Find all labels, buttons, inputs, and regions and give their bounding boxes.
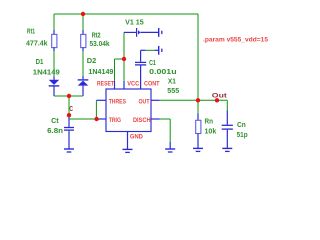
label Rt2	[92, 33, 101, 40]
op-amp U1: 555 timer X1 box	[106, 89, 151, 132]
label Rt1 value 477.4k	[26, 41, 48, 48]
svg-text:1N4149: 1N4149	[33, 70, 60, 77]
wire Out segment	[198, 99, 227, 101]
pin label OUT	[139, 98, 150, 105]
wire Rt2 to D2	[82, 48, 84, 80]
capacitor Ct bottom lead	[68, 131, 70, 149]
node junction dot OUT / rail / Rn	[196, 98, 200, 102]
svg-text:53.04k: 53.04k	[90, 41, 110, 48]
wire top rail Out net	[54, 13, 198, 15]
net label Out	[212, 93, 228, 100]
node junction dot TRIG/THRES tie	[94, 117, 98, 121]
capacitor Cn	[222, 125, 233, 129]
label Rt1	[27, 29, 35, 36]
svg-text:TRIG: TRIG	[109, 117, 121, 124]
label C1 value 0.001u	[149, 69, 177, 76]
diode D2 (cathode top, pointing up)	[78, 80, 89, 96]
svg-text:.param v555_vdd=15: .param v555_vdd=15	[203, 36, 268, 43]
svg-text:477.4k: 477.4k	[26, 41, 48, 48]
pin stub OUT	[151, 99, 160, 101]
pin stub GND	[127, 132, 129, 150]
node Out terminal dot	[215, 98, 219, 102]
svg-text:6.8n: 6.8n	[47, 128, 63, 135]
wire diode bottom rail	[54, 95, 83, 97]
svg-text:Cn: Cn	[237, 122, 246, 129]
resistor Rt1	[52, 34, 57, 47]
svg-text:C: C	[69, 106, 73, 113]
pin label GND	[130, 134, 143, 141]
svg-text:CONT: CONT	[144, 80, 160, 87]
pin label CONT	[144, 80, 160, 87]
svg-text:Rn: Rn	[205, 119, 214, 126]
wire Rt1 top lead	[53, 14, 55, 34]
label D2 value 1N4149	[88, 69, 113, 76]
label Rn value 10k	[205, 129, 217, 136]
voltage source V1	[124, 28, 158, 37]
label D1 value 1N4149	[33, 70, 60, 77]
pin stub CONT / C1 bottom lead	[140, 66, 142, 90]
svg-text:X1: X1	[168, 78, 176, 85]
svg-text:51p: 51p	[237, 132, 248, 139]
svg-text:D2: D2	[87, 58, 97, 65]
net label C	[69, 106, 73, 113]
pin label RESET	[97, 80, 114, 87]
label Cn value 51p	[237, 132, 248, 139]
pin label THRES	[109, 98, 127, 105]
pin stub VCC	[123, 81, 125, 89]
ground below GND pin	[123, 149, 133, 152]
node junction dot RESET/VCC tie	[122, 57, 126, 61]
ground right of C1	[159, 46, 162, 55]
wire to RESET	[115, 59, 125, 81]
pin stub RESET	[114, 81, 116, 89]
label Rn	[205, 119, 214, 126]
svg-text:V1 15: V1 15	[125, 19, 144, 26]
pin stub DISCH	[151, 118, 160, 120]
label Cn	[237, 122, 246, 129]
capacitor C1	[135, 62, 146, 65]
label Rt2 value 53.04k	[90, 41, 110, 48]
svg-text:Out: Out	[212, 93, 228, 100]
svg-text:1N4149: 1N4149	[88, 69, 113, 76]
capacitor C1 top lead	[141, 50, 146, 62]
wire THRES feedback down	[95, 100, 97, 119]
svg-text:D1: D1	[36, 59, 44, 66]
node junction dot top rail / Rt2	[81, 12, 85, 16]
svg-text:555: 555	[167, 88, 179, 95]
capacitor Ct top lead	[68, 115, 70, 127]
capacitor Ct	[64, 128, 74, 131]
label 555	[167, 88, 179, 95]
svg-text:THRES: THRES	[109, 98, 127, 105]
diode D1 (anode top, pointing down)	[49, 80, 60, 96]
resistor Rn	[196, 120, 201, 133]
label Ct value 6.8n	[47, 128, 63, 135]
label V1 15	[125, 19, 144, 26]
ground below DISCH wire	[165, 149, 175, 152]
wire to VCC	[123, 59, 125, 81]
svg-text:DISCH: DISCH	[133, 117, 151, 124]
label Ct	[51, 118, 59, 125]
svg-text:0.001u: 0.001u	[149, 69, 177, 76]
ground below Cn	[222, 148, 232, 151]
svg-text:C1: C1	[149, 60, 156, 67]
svg-text:GND: GND	[130, 134, 143, 141]
pin label VCC	[127, 80, 139, 87]
label D1	[36, 59, 44, 66]
pin label TRIG	[109, 117, 121, 124]
svg-text:VCC: VCC	[127, 80, 139, 87]
wire Rt2 top lead	[82, 14, 84, 34]
svg-text:Rt2: Rt2	[92, 33, 101, 40]
wire V1 to VCC column	[123, 32, 125, 59]
wire C node to TRIG	[69, 118, 97, 120]
ground right of V1	[159, 28, 162, 37]
wire C1 to ground	[146, 49, 159, 51]
node junction dot diode rail / C column	[67, 94, 71, 98]
pin stub THRES	[96, 99, 106, 101]
svg-text:10k: 10k	[205, 129, 217, 136]
wire Cn top lead	[226, 100, 228, 124]
node C junction dot	[67, 113, 71, 117]
svg-text:OUT: OUT	[139, 98, 150, 105]
wire C node vertical	[68, 96, 70, 115]
wire Cn bottom lead	[226, 130, 228, 148]
label X1	[168, 78, 176, 85]
ground below Ct	[64, 149, 74, 152]
wire Rn top lead	[197, 100, 199, 120]
wire Rn bottom lead	[197, 134, 199, 149]
svg-text:Ct: Ct	[51, 118, 59, 125]
svg-text:RESET: RESET	[97, 80, 114, 87]
wire Rt1 to D1	[53, 48, 55, 80]
ground below Rn	[193, 148, 203, 151]
label C1	[149, 60, 156, 67]
label D2	[87, 58, 97, 65]
pin label DISCH	[133, 117, 151, 124]
spice directive .param v555_vdd=15	[203, 36, 268, 43]
wire OUT to right	[160, 99, 198, 101]
resistor Rt2	[81, 34, 86, 47]
wire right rail down to Out row	[197, 14, 199, 100]
svg-text:Rt1: Rt1	[27, 29, 35, 36]
wire DISCH to ground	[160, 119, 171, 149]
pin stub TRIG	[97, 118, 106, 120]
